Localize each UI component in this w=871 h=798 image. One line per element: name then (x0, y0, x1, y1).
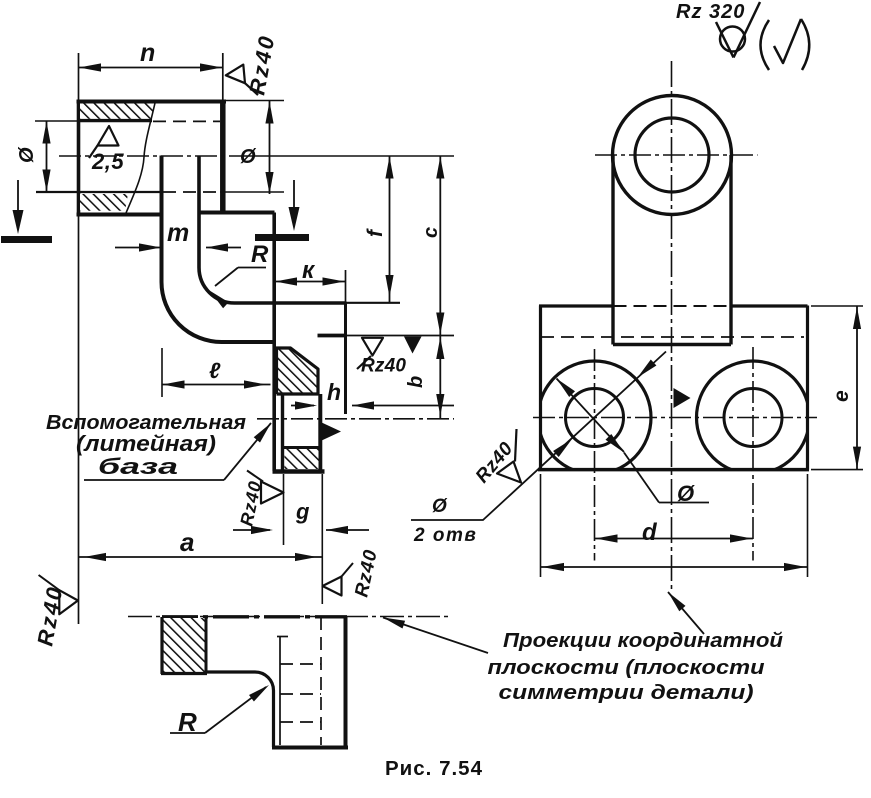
svg-text:b: b (405, 375, 427, 388)
svg-text:Ø: Ø (240, 146, 257, 168)
svg-text:h: h (327, 379, 342, 405)
svg-text:(литейная): (литейная) (76, 431, 216, 456)
svg-text:m: m (167, 219, 190, 247)
svg-text:Rz40: Rz40 (361, 356, 406, 377)
svg-text:Rz 320: Rz 320 (676, 1, 745, 23)
svg-text:плоскости (плоскости: плоскости (плоскости (488, 656, 766, 679)
svg-text:R: R (251, 241, 269, 268)
svg-text:d: d (642, 519, 658, 546)
svg-text:симметрии детали): симметрии детали) (499, 681, 754, 704)
svg-text:Рис. 7.54: Рис. 7.54 (385, 757, 483, 780)
svg-text:к: к (302, 257, 316, 284)
svg-text:g: g (295, 499, 310, 524)
svg-text:Ø: Ø (432, 496, 448, 517)
svg-text:база: база (98, 454, 178, 479)
svg-text:2 отв: 2 отв (413, 525, 477, 546)
svg-text:Ø: Ø (677, 481, 695, 506)
svg-text:2,5: 2,5 (91, 149, 124, 174)
svg-text:n: n (140, 39, 156, 67)
svg-text:Проекции координатной: Проекции координатной (503, 630, 783, 652)
svg-text:a: a (180, 527, 195, 557)
svg-text:c: c (420, 226, 442, 238)
svg-text:Ø: Ø (16, 146, 38, 163)
svg-text:ℓ: ℓ (209, 358, 221, 383)
svg-text:e: e (830, 390, 853, 402)
